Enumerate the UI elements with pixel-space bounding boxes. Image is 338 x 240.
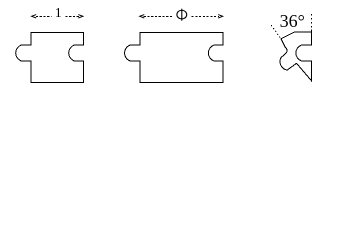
dimension arrow "phi" shaft right dashes — [192, 15, 220, 17]
arrowhead right of dimension 1 — [78, 15, 83, 18]
dimension arrow "phi" shaft left dashes — [144, 15, 173, 17]
dotted vertical ray — [311, 14, 313, 31]
svg-text:1: 1 — [55, 5, 62, 20]
dimension arrow "1" shaft left dashes — [36, 15, 52, 17]
arrowhead left of dimension 1 — [32, 15, 37, 18]
tile 2: phi-width keyed rectangle — [125, 33, 223, 83]
svg-text:36°: 36° — [280, 11, 305, 31]
dimension arrow "1" shaft right dashes — [65, 15, 79, 17]
dotted ray at 36 degrees from vertical — [271, 24, 281, 37]
arrowhead left of dimension phi — [140, 15, 145, 18]
tile 3: 36-degree rotated keyed tile — [280, 32, 312, 81]
tile 1: unit-width keyed rectangle — [16, 33, 84, 83]
arrowhead right of dimension phi — [218, 15, 223, 18]
label phi (straight phi: loop + vertical bar) — [177, 10, 187, 19]
